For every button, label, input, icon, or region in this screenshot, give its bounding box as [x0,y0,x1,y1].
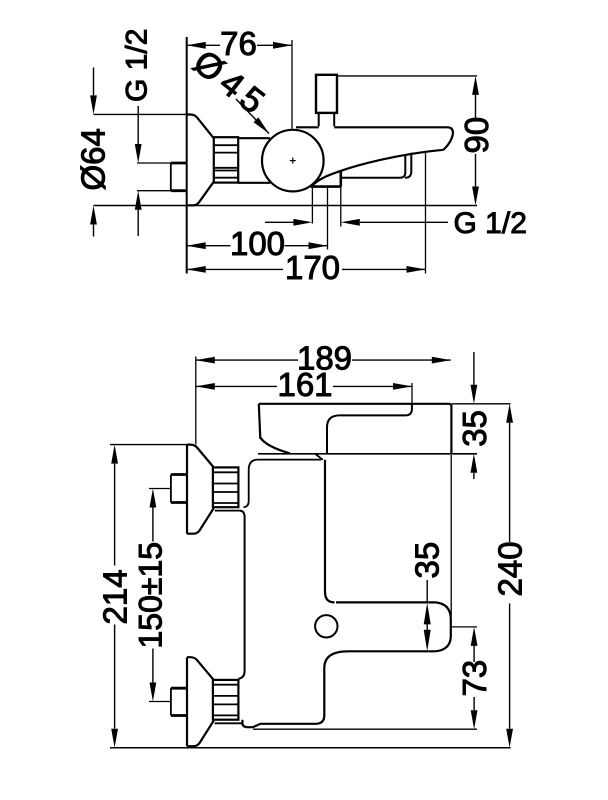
extension line lever edge to spout tip [450,455,452,616]
dimension 161 [196,385,277,387]
upper stub [171,473,187,476]
extension verticals below body [311,187,313,224]
76 right extension [291,40,293,130]
dimension 240 [509,423,511,542]
spout tongue cap [429,602,451,651]
spout tongue bottom and lower body [242,651,428,727]
svg-text:240: 240 [491,541,528,596]
diverter knob circle (plan) [315,615,337,637]
svg-text:214: 214 [96,569,133,624]
outlet block right edge [339,171,342,187]
dimension 150 +/- 15 [152,508,154,542]
outlet block bottom [311,185,341,188]
lever left slant [260,438,290,454]
dimension 170 [187,268,283,270]
90 top extension line [337,75,477,77]
svg-text:73: 73 [456,660,493,697]
svg-text:G 1/2: G 1/2 [454,207,527,240]
baseline extension y=205.5 [94,205,478,207]
under-spout ledge and slot [342,154,405,178]
svg-text:100: 100 [230,225,285,262]
svg-text:35: 35 [456,410,493,447]
lower escutcheon top edge [187,657,213,679]
diverter knob [316,75,337,113]
body back edge [238,511,244,679]
lever top and right edge [259,404,452,454]
spout tip [444,127,454,150]
svg-text:35: 35 [408,542,445,579]
dimension 35 mid [426,580,428,602]
lower escutcheon back edge [186,657,188,746]
lower stub [171,687,187,690]
dimension 189 [196,359,298,361]
214 top extension [110,444,187,446]
top plate line [258,453,477,455]
second plate line [249,460,321,470]
body back edge upper connection [244,470,249,507]
handle circle [262,130,324,192]
diverter stem [318,113,320,126]
circle center cross [290,160,296,162]
upper escutcheon bottom edge [187,508,214,534]
lower neck line [215,722,243,724]
spout body left edge [325,460,335,603]
wall supply stub [171,162,187,165]
dimension 35 right [473,352,475,385]
spout underside curve [312,150,444,186]
dimension 90 [475,94,477,119]
dimension dia64 [93,68,95,97]
dimension 100 [187,245,231,247]
spout tongue top [336,601,429,603]
escutcheon top edge [187,115,213,138]
body top line [296,126,319,128]
connector body [238,137,270,139]
dimension 73 [473,646,475,662]
lower escutcheon bottom edge [187,721,214,747]
upper nut [213,467,239,507]
upper neck line [215,510,240,512]
escutcheon bottom edge [187,182,213,205]
dimension 214 [114,464,116,566]
svg-text:G 1/2: G 1/2 [121,29,154,102]
150 extension lines [149,488,171,490]
upper escutcheon back edge [186,445,188,534]
plate diagonal [316,454,323,460]
lower nut [213,680,239,720]
svg-text:90: 90 [458,117,495,154]
svg-text:170: 170 [285,249,340,286]
wall line [186,37,188,274]
upper escutcheon top edge [187,445,213,467]
lever inner step [327,404,412,454]
threaded nut [214,137,238,182]
nut stripes [214,144,238,146]
dia64 top extension line [94,113,188,115]
svg-text:150±15: 150±15 [133,542,169,649]
stub extension lines [137,162,171,164]
dimension 76 [187,44,220,46]
dimension G 1/2 right [265,221,295,223]
svg-text:Ø64: Ø64 [75,128,112,190]
extension lines bottom view [195,357,197,445]
svg-text:161: 161 [277,366,332,403]
lever left edge [259,404,261,439]
